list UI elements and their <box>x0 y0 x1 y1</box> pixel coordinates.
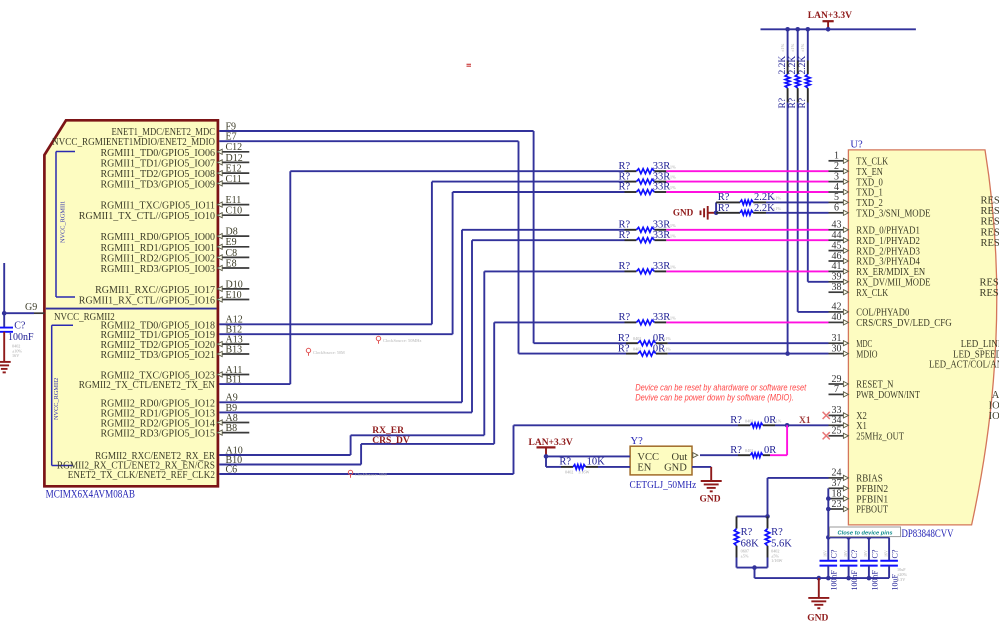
wire 68K to bottom rail <box>736 558 738 568</box>
capacitor C? 100nF at x=868.9 <box>860 537 879 590</box>
PHY right-side pin RESERVED (row y=292.2) <box>980 288 999 299</box>
wire net CRS_DV (CPU side) <box>219 322 624 464</box>
svg-text:RGMII1_TX_CTL//GPIO5_IO10: RGMII1_TX_CTL//GPIO5_IO10 <box>79 210 216 222</box>
svg-text:RESERVED: RESERVED <box>981 227 999 238</box>
wire node X1 down (pink) <box>786 425 788 455</box>
wire pull-up resistor to destination x=787.6 <box>787 103 789 354</box>
svg-text:RGMII1_RX_CTL//GPIO5_IO16: RGMII1_RX_CTL//GPIO5_IO16 <box>79 295 216 307</box>
svg-text:PFBOUT: PFBOUT <box>856 505 888 516</box>
svg-text:MDC: MDC <box>856 339 872 350</box>
svg-text:COL/PHYAD0: COL/PHYAD0 <box>856 308 909 319</box>
oscillator pin EN <box>637 463 651 474</box>
CPU pin E8 RGMII1_RD3/GPIO5_IO03 <box>101 258 250 275</box>
svg-text:EN: EN <box>637 463 651 474</box>
svg-text:NVCC_RGMII2: NVCC_RGMII2 <box>53 378 60 420</box>
junction cap rail x=828.3 <box>826 535 831 540</box>
svg-text:RX_DV/MII_MODE: RX_DV/MII_MODE <box>856 278 930 289</box>
svg-text:2.2K: 2.2K <box>778 56 788 75</box>
resistor R? 10K (oscillator EN) <box>559 456 605 474</box>
PHY pin 33 X2 <box>823 405 867 422</box>
wire RXD_1 resistor to PHY (pink net) <box>666 239 828 241</box>
PHY pin 29 RESET_N <box>829 374 894 391</box>
svg-text:VCC: VCC <box>637 452 659 463</box>
svg-text:C?: C? <box>891 549 900 558</box>
svg-text:ClockSource: 50M: ClockSource: 50M <box>355 472 387 477</box>
PHY pin 1 TX_CLK <box>829 151 889 168</box>
wire G9 node down to capacitor C? <box>3 313 5 327</box>
PHY right-side pin IO2 (clipped) <box>989 411 999 422</box>
CPU pin C11 RGMII1_TD3/GPIO5_IO09 <box>101 174 250 191</box>
svg-text:C?: C? <box>830 549 839 558</box>
wire rail down to resistor at x=797.7 <box>797 29 799 60</box>
svg-text:TX_CLK: TX_CLK <box>856 157 888 168</box>
svg-text:R?: R? <box>619 230 631 241</box>
junction node at G9 / C? cap <box>2 311 7 316</box>
wire power rail LAN+3.3V top <box>761 28 916 30</box>
wire LAN+3.3V node down to EN resistor <box>546 456 561 467</box>
svg-text:Out: Out <box>672 452 688 463</box>
wire net REF_CLK from CPU C6 <box>219 425 738 474</box>
svg-text:±1%: ±1% <box>773 206 782 211</box>
PHY pin 38 RX_CLK <box>829 282 889 299</box>
svg-text:CRS/CRS_DV/LED_CFG: CRS/CRS_DV/LED_CFG <box>856 318 952 329</box>
svg-text:RX_CLK: RX_CLK <box>856 288 888 299</box>
net label RX_ER <box>372 426 404 436</box>
svg-text:RGMII1_TD3/GPIO5_IO09: RGMII1_TD3/GPIO5_IO09 <box>101 178 216 190</box>
svg-text:R?: R? <box>618 343 630 354</box>
CPU pin B8 RGMII2_RD3/GPIO5_IO15 <box>101 423 250 440</box>
svg-text:ENET2_TX_CLK/ENET2_REF_CLK2: ENET2_TX_CLK/ENET2_REF_CLK2 <box>68 469 215 481</box>
PHY right-side pin RESERVED (row y=221.0) <box>981 217 999 228</box>
resistor R? 2.2K pull-up at x=787.6 <box>778 43 790 108</box>
PHY pin 34 X1 <box>829 415 867 432</box>
svg-text:RGMII1_RD3/GPIO5_IO03: RGMII1_RD3/GPIO5_IO03 <box>101 263 216 275</box>
svg-text:GND: GND <box>673 207 694 217</box>
svg-text:R?: R? <box>718 192 730 203</box>
svg-text:LED_SPEED/AN1: LED_SPEED/AN1 <box>953 349 999 360</box>
svg-text:R?: R? <box>619 182 631 193</box>
junction ground bus x=818.8 <box>817 576 822 581</box>
wire net RX_ER (CPU side) <box>219 271 624 455</box>
resistor R? 33R (CRS_DV series) <box>619 312 677 325</box>
svg-text:RESET_N: RESET_N <box>856 380 893 391</box>
CPU pin F9 ENET1_MDC/ENET2_MDC <box>112 121 237 138</box>
wire rail down to resistor at x=787.6 <box>787 29 789 60</box>
PHY pin 18 PFBIN1 <box>829 488 889 505</box>
CPU pin A12 RGMII2_TD0/GPIO5_IO18 <box>101 315 243 332</box>
CPU pin A9 RGMII2_RD0/GPIO5_IO12 <box>101 393 238 410</box>
resistor R? 2.2K pull-up at x=807.8 <box>798 43 810 108</box>
svg-text:IO: IO <box>989 411 999 422</box>
junction pull-up on MDIO net <box>785 351 790 356</box>
svg-text:GND: GND <box>699 494 720 504</box>
svg-text:0402: 0402 <box>745 418 753 423</box>
PHY right-side pin RESERVED (row y=231.6) <box>981 227 999 238</box>
annotation reset note line 2 <box>635 392 794 402</box>
svg-text:GND: GND <box>664 463 687 474</box>
wire LAN+3.3V to oscillator VCC <box>546 455 630 457</box>
PHY right-side pin RESERVED (row y=200.0) <box>981 196 999 207</box>
svg-text:R?: R? <box>618 333 630 344</box>
svg-text:±1%: ±1% <box>668 265 677 270</box>
wire TXD_2 strap to PHY pin 5 <box>766 201 829 203</box>
PHY component name DP83848CVV <box>902 528 955 540</box>
wire net MDC from CPU F9 <box>219 131 626 343</box>
PHY pin 45 RXD_2/PHYAD3 <box>829 240 920 257</box>
wire rail down to resistor at x=807.8 <box>807 29 809 60</box>
svg-text:X1: X1 <box>799 416 811 426</box>
svg-text:RGMII2_RD3/GPIO5_IO15: RGMII2_RD3/GPIO5_IO15 <box>101 428 216 440</box>
svg-text:LED_ACT/COL/AN_EN: LED_ACT/COL/AN_EN <box>929 360 999 371</box>
ground symbol at C? (small) <box>0 362 11 373</box>
junction ground bus x=848.6 <box>846 576 851 581</box>
ground symbol GND (bottom) <box>807 598 829 622</box>
svg-text:±1%: ±1% <box>790 43 795 52</box>
svg-text:RBIAS: RBIAS <box>856 474 883 485</box>
oscillator Y? CETGLJ_50MHz body <box>630 446 692 475</box>
wire net TXD_0 (CPU side) <box>219 182 624 325</box>
svg-text:RESERVED: RESERVED <box>980 288 999 299</box>
PHY pin 31 MDC <box>829 333 873 350</box>
CPU pin D12 RGMII1_TD1/GPIO5_IO07 <box>101 153 250 170</box>
power symbol LAN+3.3V (oscillator) <box>529 438 573 456</box>
svg-text:±1%: ±1% <box>668 223 677 228</box>
power symbol LAN+3.3V (top) <box>808 11 852 30</box>
resistor R? 2.2K pull-up at x=797.7 <box>788 43 800 108</box>
label NVCC_RGMII2 inside CPU box <box>54 311 115 323</box>
svg-text:0402: 0402 <box>633 336 641 341</box>
svg-text:RXD_1/PHYAD2: RXD_1/PHYAD2 <box>856 236 920 247</box>
pin name NVCC_RGMII (left-edge power pin, overlapped) <box>52 136 109 148</box>
junction rail/power stem <box>826 27 831 32</box>
resistor R? 33R (TXD_0 series) <box>619 171 677 184</box>
stray red mark (top) <box>467 64 472 66</box>
CPU component designator text MCIMX6X4AVM08AB <box>46 489 136 501</box>
svg-text:0402: 0402 <box>633 347 641 352</box>
junction ground bus x=828.3 <box>826 576 831 581</box>
svg-text:TXD_1: TXD_1 <box>856 188 883 199</box>
wire pink to oscillator output resistor <box>770 454 787 456</box>
CPU pin A11 RGMII2_TXC/GPIO5_IO23 <box>101 365 250 382</box>
junction cap rail x=868.9 <box>867 535 872 540</box>
wire 5.6K to bottom rail <box>767 558 769 568</box>
junction cap rail x=848.6 <box>846 535 851 540</box>
oscillator pin VCC <box>637 452 659 463</box>
svg-text:Devive can be power down by so: Devive can be power down by software (MD… <box>635 392 794 402</box>
svg-text:±1%: ±1% <box>780 43 785 52</box>
svg-text:R?: R? <box>559 456 571 467</box>
wire RBIAS bottom rail <box>737 567 768 569</box>
resistor R? 2.2K (TXD_2 strap) <box>716 192 781 205</box>
svg-text:RXD_0/PHYAD1: RXD_0/PHYAD1 <box>856 226 920 237</box>
CPU pin A10 RGMII2_RXC/ENET2_RX_ER <box>95 445 243 462</box>
svg-text:R?: R? <box>798 98 808 109</box>
svg-text:RESERVED: RESERVED <box>981 217 999 228</box>
oscillator designator Y? <box>631 436 644 447</box>
note box 'Close to device pins' <box>830 527 901 537</box>
svg-text:RX_ER: RX_ER <box>372 426 404 436</box>
CPU pin B10 RGMII2_RX_CTL/ENET2_RX_EN/CRS <box>57 455 242 472</box>
svg-text:100nF: 100nF <box>870 570 879 591</box>
svg-text:2.2K: 2.2K <box>798 56 808 75</box>
wire TXD_0 resistor to PHY (pink net) <box>666 181 828 183</box>
svg-text:±1%: ±1% <box>668 175 677 180</box>
junction RBIAS rail <box>765 514 770 519</box>
junction rail x=787.6 <box>785 27 790 32</box>
wire pull-up resistor to destination x=797.7 <box>797 103 799 312</box>
CPU pin G9 NVCC_RGMII2 (left side) <box>4 302 44 313</box>
svg-text:NVCC_RGMII1: NVCC_RGMII1 <box>60 201 67 243</box>
svg-text:RESERVED: RESERVED <box>980 278 999 289</box>
wire CRS_DV resistor to PHY (pink net) <box>666 321 828 323</box>
wire net MDIO from CPU E7 <box>219 141 626 353</box>
resistor R? 33R (TX_EN series) <box>619 161 677 174</box>
PHY pin 2 TX_EN <box>829 161 884 178</box>
PHY right-side pin LED_SPEED/AN1 <box>953 349 999 360</box>
PHY pin 37 PFBIN2 <box>829 478 889 495</box>
svg-text:U?: U? <box>850 140 863 151</box>
svg-text:10K: 10K <box>587 456 606 467</box>
svg-text:0R: 0R <box>764 445 776 456</box>
PHY pin 6 TXD_3/SNI_MODE <box>829 203 931 220</box>
capacitor C? 100nF at x=828.3 <box>820 537 839 590</box>
svg-text:±1%: ±1% <box>668 233 677 238</box>
PHY pin 23 PFBOUT <box>829 499 889 516</box>
wire TX_EN resistor to PHY (pink net) <box>666 170 828 172</box>
oscillator pin GND <box>664 463 687 474</box>
CPU pin B13 RGMII2_TD3/GPIO5_IO21 <box>101 344 250 361</box>
svg-text:R?: R? <box>619 312 631 323</box>
svg-text:1/16W: 1/16W <box>578 469 589 474</box>
junction rail x=807.8 <box>806 27 811 32</box>
svg-text:1/16W: 1/16W <box>771 558 782 563</box>
wire oscillator Out pin to 0R <box>700 454 738 456</box>
compile flag marker 2 <box>306 348 345 355</box>
resistor R? 0R (MDIO series) <box>618 343 671 356</box>
wire TXD_1 resistor to PHY (pink net) <box>666 191 828 193</box>
svg-text:RESERVED: RESERVED <box>981 238 999 249</box>
svg-text:16V: 16V <box>12 353 19 358</box>
svg-text:MCIMX6X4AVM08AB: MCIMX6X4AVM08AB <box>46 489 136 501</box>
PHY right-side pin LED_ACT/COL/AN_EN <box>929 360 999 371</box>
wire strap junction up to TXD_2 row <box>715 202 717 212</box>
svg-text:Device can be reset by ahardwa: Device can be reset by ahardware or soft… <box>635 382 806 392</box>
junction bottom rail tap <box>752 565 757 570</box>
svg-text:100nF: 100nF <box>830 570 839 591</box>
PHY pin 3 TXD_0 <box>829 171 883 188</box>
processor U? MCIMX6X4AVM08AB symbol body <box>44 120 218 486</box>
junction ground bus x=868.9 <box>867 576 872 581</box>
wire net PFBOUT vertical from PHY pin 37 <box>827 488 829 537</box>
svg-text:R?: R? <box>619 220 631 231</box>
CPU pin C6 ENET2_TX_CLK/ENET2_REF_CLK2 <box>68 464 237 481</box>
svg-text:±1%: ±1% <box>668 316 677 321</box>
PHY pin 39 RX_DV/MII_MODE <box>829 272 931 289</box>
PHY pin 4 TXD_1 <box>829 182 883 199</box>
CPU pin D8 RGMII1_RD0/GPIO5_IO00 <box>101 227 250 244</box>
wire MDIO resistor to PHY pin 30 <box>668 353 829 355</box>
CPU pin E12 RGMII1_TD2/GPIO5_IO08 <box>101 164 250 181</box>
wire RBIAS top rail <box>737 515 768 517</box>
svg-text:RGMII2_TX_CTL/ENET2_TX_EN: RGMII2_TX_CTL/ENET2_TX_EN <box>79 379 215 391</box>
svg-text:±1%: ±1% <box>663 347 671 352</box>
resistor R? 68K <box>734 516 759 558</box>
svg-text:2.2K: 2.2K <box>788 56 798 75</box>
wire pull-up x=807.8 to PHY pin 39 <box>808 281 829 283</box>
svg-text:Close to device pins: Close to device pins <box>838 531 893 537</box>
CPU pin A8 RGMII2_RD2/GPIO5_IO14 <box>101 413 250 430</box>
junction node X1 <box>785 423 790 428</box>
wire net RXD_0 (CPU side) <box>219 230 624 402</box>
PHY right-side pin RESERVED (row y=242.2) <box>981 238 999 249</box>
svg-text:C?: C? <box>870 549 879 558</box>
resistor R? 2.2K (TXD_3 strap) <box>716 203 781 215</box>
svg-text:±1%: ±1% <box>773 195 782 200</box>
wire net RXD_1 (CPU side) <box>219 240 624 412</box>
svg-text:100nF: 100nF <box>850 570 859 591</box>
wire MDC resistor to PHY pin 31 <box>668 342 829 344</box>
svg-text:AN: AN <box>992 390 999 401</box>
PHY pin 43 RXD_0/PHYAD1 <box>829 220 920 237</box>
wire RXD_0 resistor to PHY (pink net) <box>666 229 828 231</box>
wire pull-up x=797.7 to PHY pin 42 <box>798 311 829 313</box>
CPU pin E7 ENET1MDIO/ENET2_MDIO <box>106 132 237 149</box>
resistor R? 0R (oscillator output) <box>730 445 776 458</box>
CPU pin C8 RGMII1_RD2/GPIO5_IO02 <box>101 248 250 265</box>
svg-text:TX_EN: TX_EN <box>856 167 883 178</box>
svg-text:R?: R? <box>718 203 730 214</box>
wire ground bus to GND <box>818 578 820 598</box>
svg-text:0402: 0402 <box>565 469 573 474</box>
compile flag marker 3 <box>348 470 387 477</box>
wire net RBIAS from PHY pin 24 <box>768 478 829 517</box>
svg-text:R?: R? <box>741 527 753 538</box>
svg-text:R?: R? <box>730 415 742 426</box>
ground symbol GND (TXD_2/3 strap, sideways) <box>673 206 716 220</box>
junction rail x=797.7 <box>795 27 800 32</box>
svg-text:C?: C? <box>850 549 859 558</box>
PHY pin 46 RXD_3/PHYAD4 <box>829 251 921 268</box>
CPU pin E9 RGMII1_RD1/GPIO5_IO01 <box>101 237 250 254</box>
PHY pin 30 MDIO <box>829 343 878 360</box>
CPU pin E11 RGMII1_TXC/GPIO5_IO11 <box>101 195 250 212</box>
PHY designator U? <box>850 140 863 151</box>
svg-text:ClockSource: 50MHz: ClockSource: 50MHz <box>383 338 421 343</box>
svg-text:TXD_3/SNI_MODE: TXD_3/SNI_MODE <box>856 209 930 220</box>
svg-text:16V: 16V <box>863 550 868 557</box>
svg-text:X1: X1 <box>856 421 867 432</box>
PHY pin 24 RBIAS <box>829 468 883 485</box>
svg-text:R?: R? <box>619 171 631 182</box>
svg-text:±1%: ±1% <box>774 418 782 423</box>
wire RX_ER resistor to PHY (pink net) <box>666 270 828 272</box>
NVCC_RGMII2 section divider (net NVCC_RGMII2) <box>46 308 217 310</box>
svg-text:MDIO: MDIO <box>856 349 878 360</box>
svg-text:Y?: Y? <box>631 436 644 447</box>
svg-text:RESERVED: RESERVED <box>981 196 999 207</box>
wire pull-up resistor to destination x=807.8 <box>807 103 809 282</box>
wire capacitor top rail <box>828 536 889 538</box>
PHY pin 5 TXD_2 <box>829 192 883 209</box>
svg-text:0402: 0402 <box>745 448 753 453</box>
ground symbol GND (oscillator) <box>699 481 721 504</box>
PHY pin 44 RXD_1/PHYAD2 <box>829 230 920 247</box>
wire bottom rail down to ground bus <box>754 568 756 579</box>
capacitor C? 100nF at x=848.6 <box>840 537 859 590</box>
junction PFBOUT tap <box>826 507 831 512</box>
svg-text:±1%: ±1% <box>668 185 677 190</box>
net label CRS_DV <box>372 436 410 446</box>
CPU pin B12 RGMII2_TD1/GPIO5_IO19 <box>101 325 243 342</box>
svg-text:RX_ER/MDIX_EN: RX_ER/MDIX_EN <box>856 267 925 278</box>
svg-text:PFBIN1: PFBIN1 <box>856 494 888 505</box>
wire net TX_EN (CPU side) <box>219 171 624 384</box>
wire 0R to X1 node and PHY pin 34 <box>775 424 829 426</box>
resistor R? 0R (REF_CLK series) <box>730 415 782 428</box>
capacitor C? 100nF (CPU decoupling) <box>0 320 34 358</box>
power bracket NVCC_RGMII1 inside CPU <box>56 152 75 298</box>
PHY pin 41 RX_ER/MDIX_EN <box>829 261 926 278</box>
resistor R? 33R (RXD_0 series) <box>619 220 677 233</box>
svg-text:TXD_0: TXD_0 <box>856 177 883 188</box>
svg-text:GND: GND <box>807 613 828 622</box>
svg-text:±1%: ±1% <box>663 336 671 341</box>
oscillator name CETGLJ_50MHz <box>630 480 697 491</box>
svg-text:CETGLJ_50MHz: CETGLJ_50MHz <box>630 480 697 491</box>
CPU pin D10 RGMII1_RXC//GPIO5_IO17 <box>95 279 249 296</box>
svg-text:ClockSource: 50M: ClockSource: 50M <box>313 350 345 355</box>
CPU pin B9 RGMII2_RD1/GPIO5_IO13 <box>101 403 238 420</box>
resistor R? 33R (RX_ER series) <box>619 261 677 274</box>
svg-text:±1%: ±1% <box>800 43 805 52</box>
wire net TXD_1 (CPU side) <box>219 192 624 334</box>
svg-text:R?: R? <box>788 98 798 109</box>
junction GND strap <box>714 211 719 216</box>
svg-text:±5%: ±5% <box>741 553 749 558</box>
svg-text:R?: R? <box>619 261 631 272</box>
resistor R? 0R (MDC series) <box>618 333 671 346</box>
wire from G9 node up (NVCC_RGMII2 feed) <box>3 263 5 313</box>
svg-text:R?: R? <box>771 527 783 538</box>
oscillator pin Out <box>672 452 698 463</box>
PHY right-side pin RESERVED (row y=281.8) <box>980 278 999 289</box>
PHY right-side pin AN (clipped) <box>992 390 999 401</box>
wire ground bus under caps <box>755 577 890 579</box>
PHY right-side pin RESERVED (row y=210.4) <box>981 206 999 217</box>
svg-text:RXD_2/PHYAD3: RXD_2/PHYAD3 <box>856 246 920 257</box>
annotation reset note line 1 <box>635 382 806 392</box>
resistor R? 5.6K <box>765 516 792 563</box>
wire 10K to oscillator EN <box>598 466 630 468</box>
CPU pin C12 RGMII1_TD0/GPIO5_IO06 <box>101 142 250 159</box>
svg-text:CRS_DV: CRS_DV <box>372 436 410 446</box>
svg-text:IO: IO <box>989 401 999 412</box>
power bracket NVCC_RGMII2 inside CPU <box>52 325 73 465</box>
svg-text:16V: 16V <box>823 550 828 557</box>
wire capacitor C? to ground <box>3 332 5 362</box>
compile flag marker 1 <box>376 336 421 343</box>
svg-text:R?: R? <box>619 161 631 172</box>
svg-text:LAN+3.3V: LAN+3.3V <box>808 11 852 21</box>
svg-text:±1%: ±1% <box>668 164 677 169</box>
grey value text for 10uF cap <box>897 567 907 582</box>
CPU pin B11 RGMII2_TX_CTL/ENET2_TX_EN <box>79 375 242 392</box>
PHY pin 40 CRS/CRS_DV/LED_CFG <box>829 312 953 329</box>
junction PFBIN1 tap <box>826 496 831 501</box>
svg-text:RGMII2_TD3/GPIO5_IO21: RGMII2_TD3/GPIO5_IO21 <box>101 349 216 361</box>
junction LAN+3.3V node <box>544 454 549 459</box>
svg-text:TXD_2: TXD_2 <box>856 198 883 209</box>
